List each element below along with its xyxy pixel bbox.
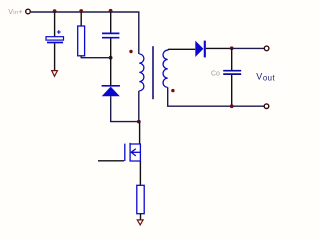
wire clamp cap top lead xyxy=(110,12,112,33)
wire secondary bottom rail xyxy=(168,87,265,106)
diode D2 cathode bar xyxy=(204,41,206,58)
diode D1 (clamp, pointing up) cathode bar xyxy=(102,85,120,87)
capacitor C2 (clamp) xyxy=(102,33,119,37)
capacitor Co xyxy=(223,71,241,74)
capacitor C1 bottom plate xyxy=(47,42,63,44)
node (junction on rail at clamp cap) xyxy=(109,9,113,13)
node (drain junction) xyxy=(137,120,141,124)
wire top rail xyxy=(31,12,139,54)
ground (input) xyxy=(52,71,58,77)
node (junction on rail at input cap) xyxy=(53,9,57,13)
resistor R1 (clamp) xyxy=(78,26,85,56)
wire source lead xyxy=(139,161,141,185)
wire output top to terminal xyxy=(232,47,265,49)
wire output cap bottom lead xyxy=(231,75,233,106)
svg-text:Co: Co xyxy=(211,71,220,78)
node (output bottom junction) xyxy=(230,104,234,108)
transformer core xyxy=(152,46,154,99)
wire sense resistor bottom lead xyxy=(140,214,142,220)
capacitor C1 input electrolytic (+ mark) xyxy=(57,30,61,34)
transistor Q1 (N-MOSFET) xyxy=(125,143,141,162)
wire secondary top to output diode xyxy=(168,48,196,51)
wire clamp cap bottom to diode cathode xyxy=(110,38,112,85)
wire clamp resistor top lead xyxy=(80,12,82,26)
wire gate lead xyxy=(98,160,124,162)
transformer T1 primary winding xyxy=(139,54,144,91)
wire clamp resistor bottom to clamp node xyxy=(81,56,110,58)
wire output cap top lead xyxy=(231,48,233,70)
wire clamp diode anode to drain node xyxy=(111,96,139,121)
wire primary bottom to drain node xyxy=(138,91,140,122)
terminal Vin+ xyxy=(26,9,31,14)
resistor R2 (source sense) xyxy=(137,185,144,213)
terminal Vout+ xyxy=(264,46,269,51)
wire input cap bottom lead xyxy=(54,43,56,70)
wire input cap top lead xyxy=(54,12,56,37)
node (junction on rail at clamp resistor) xyxy=(79,9,83,13)
ground (source) xyxy=(137,220,143,225)
transformer T1 secondary winding xyxy=(163,50,168,87)
terminal Vout- xyxy=(264,104,269,109)
diode D2 (output) triangle xyxy=(195,41,203,57)
node (clamp RC bottom junction) xyxy=(109,56,113,60)
wire output diode to cap junction xyxy=(206,47,232,49)
capacitor C1 top plate (boxed) xyxy=(46,37,64,40)
diode D1 triangle xyxy=(102,87,120,97)
node (primary polarity dot) xyxy=(129,50,132,53)
wire drain lead xyxy=(139,122,141,144)
node (output top junction) xyxy=(230,46,234,50)
svg-text:Vout: Vout xyxy=(256,71,275,82)
node (secondary polarity dot) xyxy=(171,89,174,92)
